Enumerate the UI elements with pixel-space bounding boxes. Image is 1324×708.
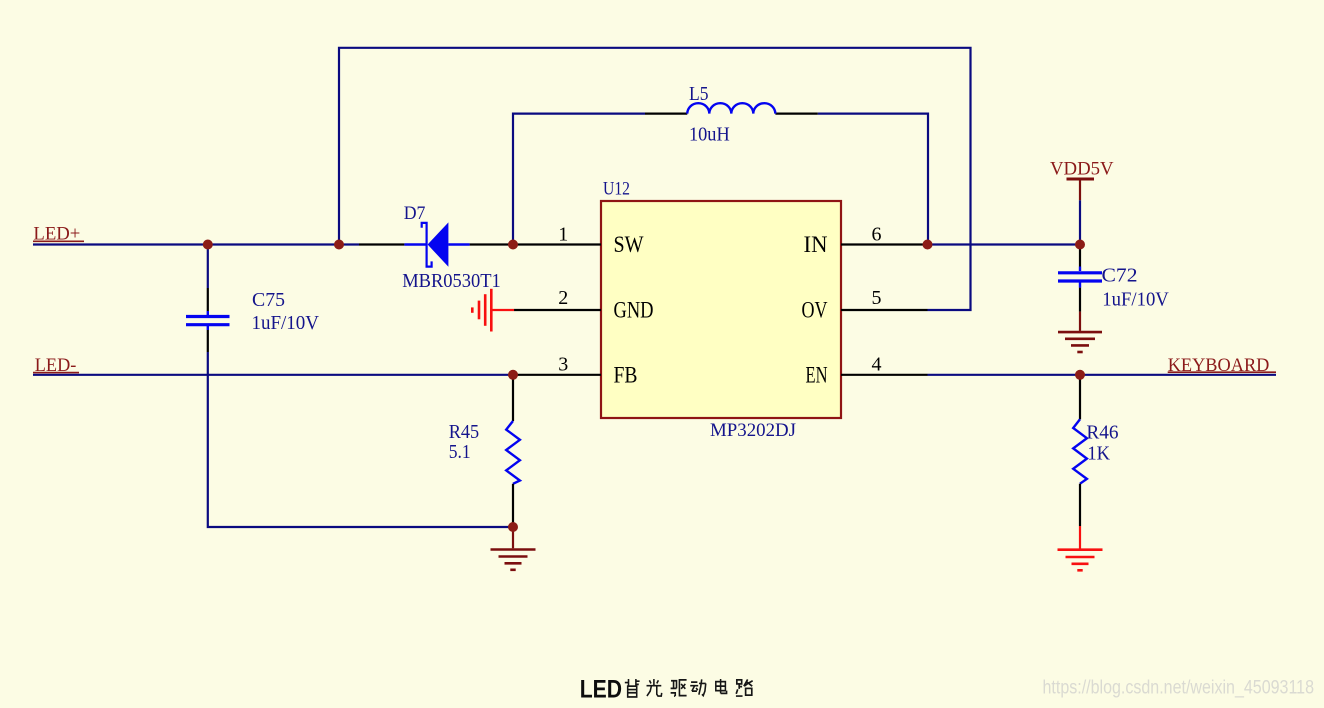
svg-text:4: 4 xyxy=(872,354,882,376)
ground (R45 node, dark red) xyxy=(491,527,536,570)
wire SW node to L5 left xyxy=(513,114,645,245)
char guang xyxy=(647,679,662,696)
char dian xyxy=(716,679,727,693)
junction VDD node xyxy=(1075,240,1085,250)
svg-text:L5: L5 xyxy=(689,83,709,105)
svg-text:LED: LED xyxy=(580,675,622,703)
resistor R45 xyxy=(506,375,520,527)
diode D7 xyxy=(359,222,513,266)
resistor R46 xyxy=(1073,375,1087,526)
capacitor C72 xyxy=(1058,245,1102,312)
svg-text:1: 1 xyxy=(558,224,568,246)
svg-text:D7: D7 xyxy=(404,203,426,224)
svg-text:6: 6 xyxy=(872,224,882,246)
power VDD5V bar xyxy=(1067,179,1095,200)
IC U12 body xyxy=(601,201,841,418)
svg-text:VDD5V: VDD5V xyxy=(1050,160,1114,180)
char bei xyxy=(625,679,640,697)
pin 6 (IN) xyxy=(804,224,928,257)
svg-text:5.1: 5.1 xyxy=(449,441,471,463)
pin 1 (SW) xyxy=(513,224,644,257)
svg-text:OV: OV xyxy=(802,298,828,323)
svg-text:SW: SW xyxy=(614,232,644,257)
label LED+ xyxy=(33,225,84,245)
pin 3 (FB) xyxy=(513,354,638,388)
svg-text:https://blog.csdn.net/weixin_4: https://blog.csdn.net/weixin_45093118 xyxy=(1043,678,1315,699)
junction SW node xyxy=(508,240,518,250)
junction FB node xyxy=(508,370,518,380)
pin 4 (EN) xyxy=(806,354,928,388)
pin 5 (OV) xyxy=(802,287,928,323)
svg-text:GND: GND xyxy=(614,298,654,323)
junction ground node (R45) xyxy=(508,522,518,532)
svg-text:1uF/10V: 1uF/10V xyxy=(1102,289,1169,311)
svg-text:C75: C75 xyxy=(252,289,285,311)
ground (GND pin, bright red, rotated) xyxy=(472,289,514,332)
junction EN/R46 xyxy=(1075,370,1085,380)
wire LED- net xyxy=(33,374,513,376)
label LED- xyxy=(33,356,79,376)
svg-text:C72: C72 xyxy=(1102,265,1138,287)
char qu xyxy=(671,680,687,696)
label KEYBOARD xyxy=(1168,356,1276,376)
junction LED+/C75 xyxy=(203,240,213,250)
title: LED backlight driver circuit xyxy=(580,675,622,703)
wire VDD stub xyxy=(1079,200,1081,244)
svg-text:5: 5 xyxy=(872,287,882,309)
wire LED+ net horizontal xyxy=(33,243,359,245)
svg-text:FB: FB xyxy=(614,362,638,387)
junction IN/L5 xyxy=(923,240,933,250)
wire C75 bottom to ground node xyxy=(208,352,513,527)
svg-text:MBR0530T1: MBR0530T1 xyxy=(402,270,501,292)
char lu xyxy=(736,679,753,696)
wire EN to KEYBOARD xyxy=(928,374,1277,376)
pin 2 (GND) xyxy=(514,287,654,323)
svg-text:EN: EN xyxy=(806,362,828,387)
char dong xyxy=(690,679,706,695)
svg-text:MP3202DJ: MP3202DJ xyxy=(710,420,796,441)
wire L5 right to IN node xyxy=(818,114,928,243)
svg-text:R46: R46 xyxy=(1086,421,1118,443)
svg-text:R45: R45 xyxy=(449,421,480,443)
svg-text:3: 3 xyxy=(558,354,568,376)
svg-text:10uH: 10uH xyxy=(689,124,730,146)
title chinese characters (hand-drawn strokes) xyxy=(625,679,753,697)
svg-text:1K: 1K xyxy=(1087,443,1110,465)
svg-text:U12: U12 xyxy=(603,179,630,200)
wire top rail loop (LED+ to OV) xyxy=(339,48,971,310)
wire IN node to VDD node xyxy=(928,243,1081,245)
ground (R46, bright red) xyxy=(1058,526,1103,570)
inductor L5 xyxy=(645,103,818,113)
svg-text:IN: IN xyxy=(804,232,828,257)
svg-text:2: 2 xyxy=(558,287,568,309)
svg-text:1uF/10V: 1uF/10V xyxy=(252,312,320,334)
capacitor C75 xyxy=(186,245,230,353)
ground (C72 node, dark red) xyxy=(1058,312,1102,352)
junction LED+/top rail xyxy=(334,240,344,250)
